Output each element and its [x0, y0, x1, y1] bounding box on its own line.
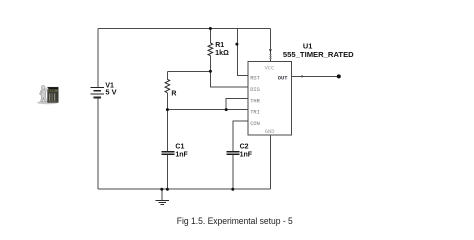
svg-text:CON: CON — [250, 121, 260, 127]
svg-text:555_TIMER_RATED: 555_TIMER_RATED — [283, 50, 354, 59]
svg-text:GND: GND — [265, 129, 275, 135]
svg-text:Fig 1.5. Experimental setup -: Fig 1.5. Experimental setup - 5 — [177, 215, 293, 226]
svg-text:1nF: 1nF — [175, 151, 188, 158]
svg-text:TRI: TRI — [250, 110, 260, 116]
svg-text:5 V: 5 V — [105, 90, 117, 97]
svg-text:1nF: 1nF — [240, 151, 253, 158]
svg-text:1kΩ: 1kΩ — [215, 50, 229, 57]
svg-text:THR: THR — [250, 98, 260, 104]
svg-text:OUT: OUT — [278, 76, 288, 82]
svg-text:R: R — [171, 91, 176, 98]
svg-text:R1: R1 — [215, 42, 224, 49]
svg-text:RST: RST — [250, 76, 260, 82]
svg-text:VCC: VCC — [265, 65, 275, 71]
svg-text:V1: V1 — [105, 82, 114, 89]
svg-text:C2: C2 — [240, 143, 249, 150]
svg-text:C1: C1 — [175, 143, 184, 150]
svg-text:DIS: DIS — [250, 87, 260, 93]
